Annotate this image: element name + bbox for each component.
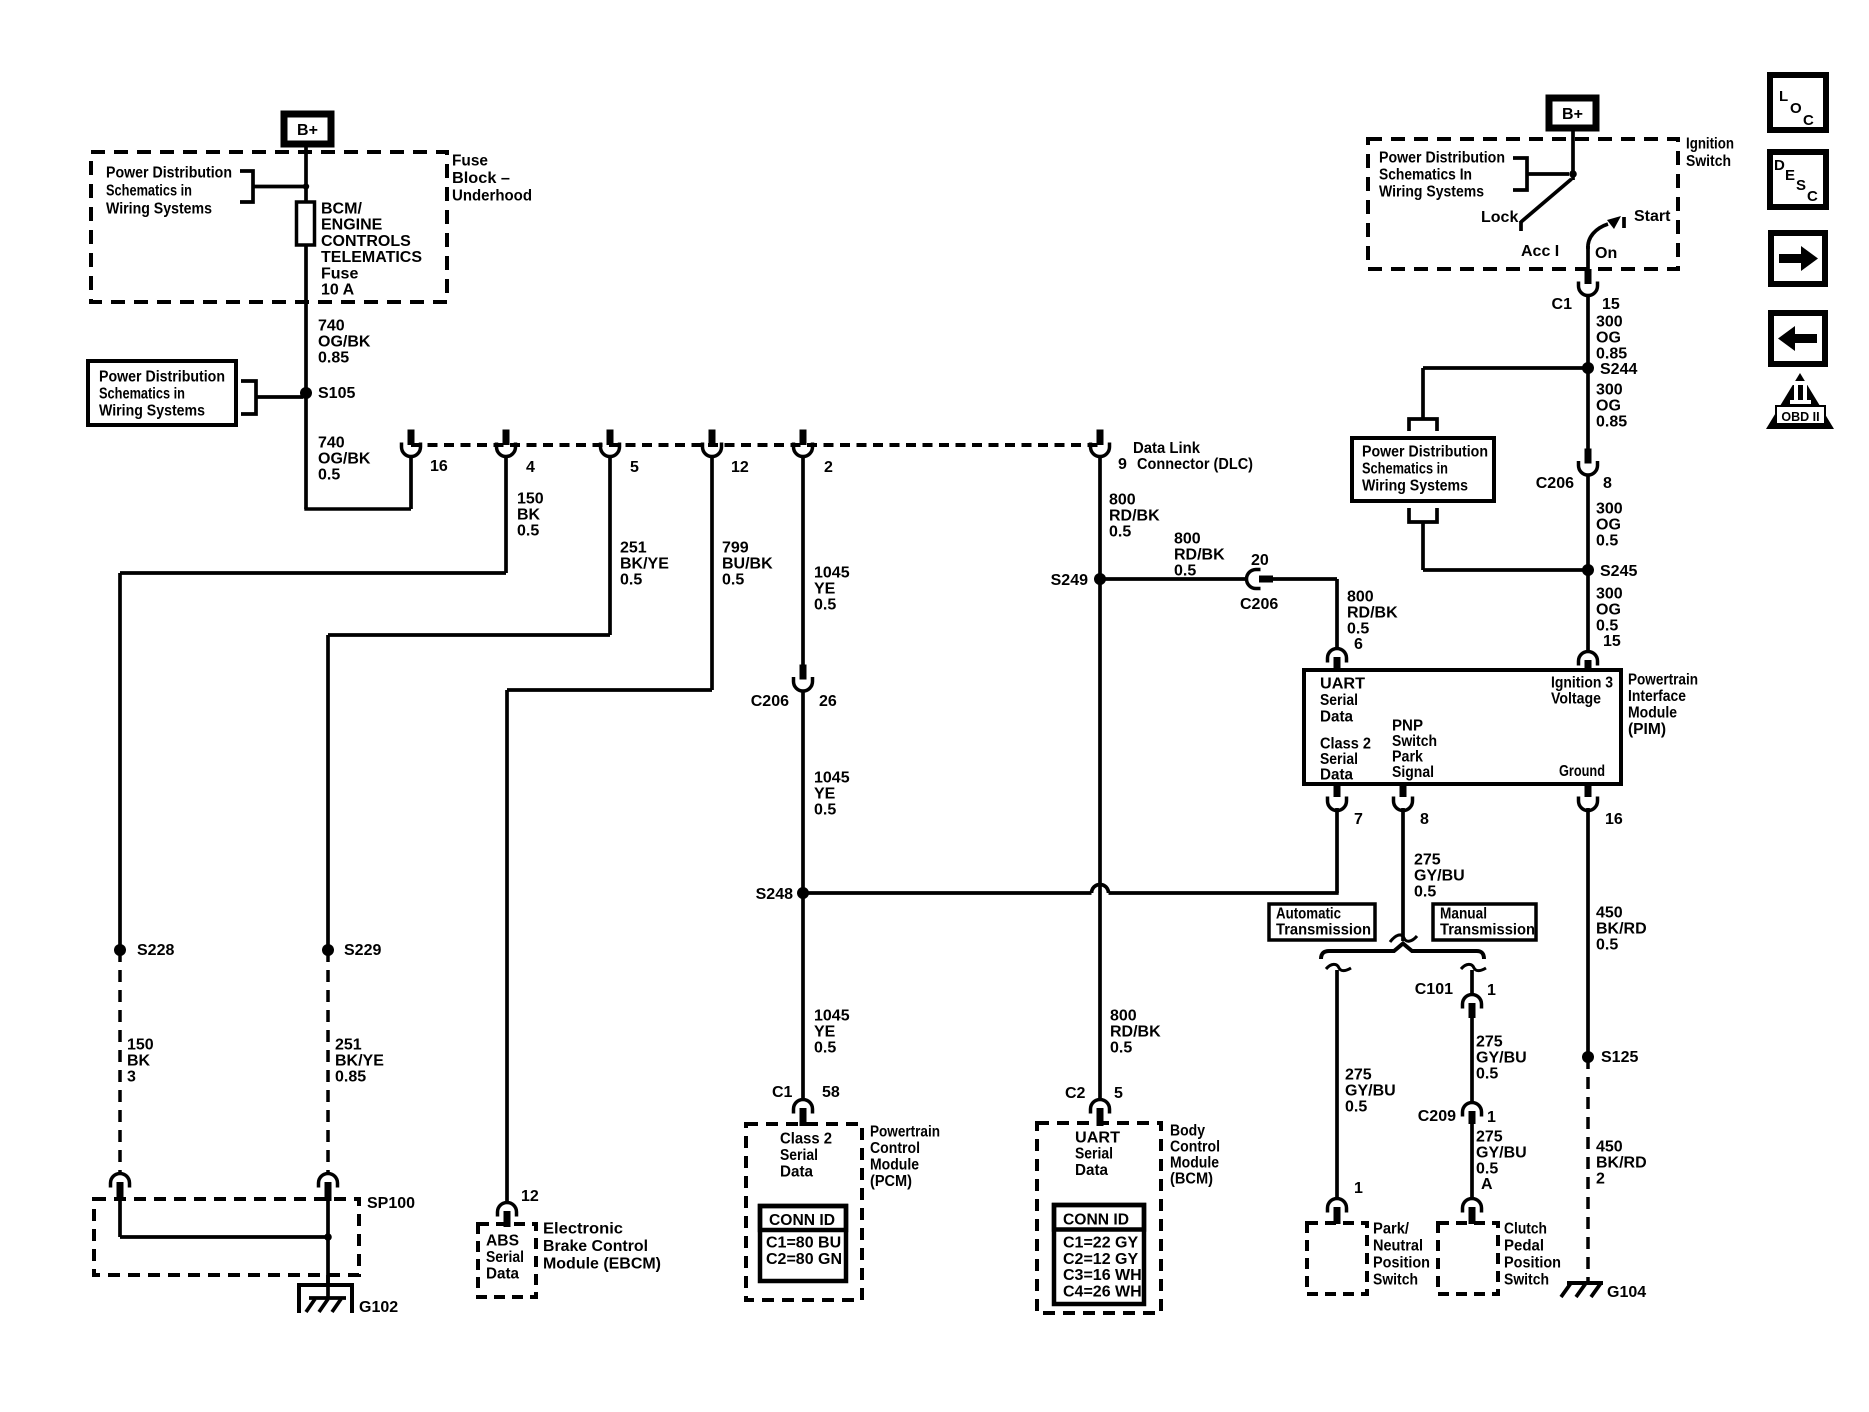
icon OBD II triangle <box>1766 373 1834 429</box>
svg-text:C206: C206 <box>1536 475 1574 492</box>
svg-text:275: 275 <box>1345 1067 1372 1084</box>
splice S248 <box>797 887 809 899</box>
svg-text:0.5: 0.5 <box>1110 1040 1132 1057</box>
dashed wire S229 to SP100, 251 BK/YE 0.85 <box>326 950 330 1172</box>
svg-text:S228: S228 <box>137 942 174 959</box>
box Manual Transmission <box>1433 904 1536 940</box>
DLC pin 12 <box>709 430 716 446</box>
connector into park/neutral switch pin 1 <box>1328 1199 1347 1213</box>
svg-text:0.5: 0.5 <box>620 572 642 589</box>
svg-text:C: C <box>1803 112 1814 129</box>
svg-text:Class 2: Class 2 <box>780 1131 832 1148</box>
wire to park/neutral switch, 275 GY/BU 0.5 <box>1335 970 1339 1199</box>
wire C206-8 to S245, 300 OG 0.5 <box>1586 475 1590 570</box>
svg-text:Module (EBCM): Module (EBCM) <box>543 1256 661 1273</box>
svg-text:G104: G104 <box>1607 1284 1646 1301</box>
PIM connector pin 6 <box>1328 649 1347 663</box>
svg-text:S229: S229 <box>344 942 381 959</box>
fuse F: BCM/ENGINE CONTROLS TELEMATICS Fuse 10 A <box>297 202 315 245</box>
svg-text:Serial: Serial <box>780 1147 818 1164</box>
svg-text:800: 800 <box>1174 531 1201 548</box>
svg-text:Switch: Switch <box>1373 1272 1418 1289</box>
icon arrow left <box>1771 313 1825 364</box>
wire S244 to C206 pin 8, 300 OG 0.85 <box>1586 368 1590 449</box>
wire S249 to BCM C2 pin 5, 800 RD/BK 0.5 <box>1098 579 1102 1099</box>
svg-text:C2=12 GY: C2=12 GY <box>1063 1251 1138 1268</box>
wire DLC pin 4 to S228 <box>504 456 508 573</box>
svg-text:CONN ID: CONN ID <box>769 1212 835 1229</box>
svg-text:12: 12 <box>521 1188 539 1205</box>
wire S105 down and over to DLC pin 16 <box>304 393 308 509</box>
svg-text:CONTROLS: CONTROLS <box>321 233 411 250</box>
svg-text:740: 740 <box>318 435 345 452</box>
DLC pin 16 <box>408 430 415 446</box>
svg-text:10 A: 10 A <box>321 282 355 299</box>
svg-text:CONN ID: CONN ID <box>1063 1212 1129 1229</box>
splice S228 <box>114 944 126 956</box>
svg-text:GY/BU: GY/BU <box>1476 1145 1527 1162</box>
svg-text:BCM/: BCM/ <box>321 201 362 218</box>
switch contact Start <box>1622 217 1626 228</box>
splice pack SP100 dashed outline <box>94 1199 359 1275</box>
PCM dashed box Class 2 Serial Data <box>746 1124 862 1300</box>
svg-text:Position: Position <box>1504 1255 1561 1272</box>
switch curve On to Start with arrow <box>1588 224 1608 249</box>
svg-text:15: 15 <box>1603 633 1621 650</box>
svg-text:Connector (DLC): Connector (DLC) <box>1137 456 1253 473</box>
svg-text:C206: C206 <box>1240 596 1278 613</box>
dashed wire S228 to SP100, 150 BK 3 <box>118 950 122 1172</box>
svg-text:0.85: 0.85 <box>335 1069 366 1086</box>
option brace <box>1321 944 1484 960</box>
svg-text:L: L <box>1779 88 1788 105</box>
svg-text:Serial: Serial <box>1075 1146 1113 1163</box>
svg-text:A: A <box>1481 1176 1493 1193</box>
wire fuse to S105 <box>304 245 308 393</box>
svg-text:0.85: 0.85 <box>1596 346 1627 363</box>
svg-text:C4=26 WH: C4=26 WH <box>1063 1283 1142 1300</box>
svg-text:BK/YE: BK/YE <box>335 1053 384 1070</box>
svg-text:Powertrain: Powertrain <box>870 1124 940 1141</box>
svg-text:Module: Module <box>1170 1155 1219 1172</box>
svg-text:Data Link: Data Link <box>1133 440 1200 457</box>
reference box Power Distribution Schematics in Wiring Systems (ignition feed) <box>1352 438 1494 501</box>
svg-text:C206: C206 <box>751 693 789 710</box>
svg-text:300: 300 <box>1596 586 1623 603</box>
connector into clutch switch pin A <box>1463 1199 1482 1213</box>
ignition connector C1 pin 15 <box>1585 269 1592 284</box>
svg-text:Park/: Park/ <box>1373 1221 1410 1238</box>
svg-text:800: 800 <box>1347 589 1374 606</box>
svg-text:300: 300 <box>1596 314 1623 331</box>
DLC pin 4 <box>503 430 510 446</box>
EBCM dashed box ABS Serial Data <box>478 1224 536 1297</box>
svg-text:0.5: 0.5 <box>517 523 539 540</box>
svg-text:450: 450 <box>1596 905 1623 922</box>
wire S248 to PCM C1 pin 58, 1045 YE 0.5 <box>801 893 805 1099</box>
svg-text:9: 9 <box>1118 456 1127 473</box>
svg-text:Control: Control <box>1170 1139 1220 1156</box>
svg-text:Power Distribution: Power Distribution <box>1379 150 1505 167</box>
svg-text:275: 275 <box>1476 1129 1503 1146</box>
svg-text:Schematics In: Schematics In <box>1379 167 1472 184</box>
svg-text:Ignition 3: Ignition 3 <box>1551 675 1613 692</box>
splice S245 <box>1582 564 1594 576</box>
svg-text:C1=22 GY: C1=22 GY <box>1063 1235 1138 1252</box>
wire B+ to fuse <box>304 147 308 202</box>
wire C206-26 to S248, 1045 YE 0.5 <box>801 691 805 893</box>
svg-text:Power Distribution: Power Distribution <box>106 165 232 182</box>
svg-text:20: 20 <box>1251 552 1269 569</box>
svg-text:Data: Data <box>1320 767 1353 784</box>
svg-text:S: S <box>1796 177 1806 194</box>
svg-text:1: 1 <box>1354 1180 1363 1197</box>
svg-text:ABS: ABS <box>486 1233 519 1250</box>
svg-text:Fuse: Fuse <box>452 153 488 170</box>
DLC pin 2 <box>800 430 807 446</box>
svg-text:0.5: 0.5 <box>1596 937 1618 954</box>
BCM dashed box UART Serial Data <box>1037 1123 1161 1313</box>
svg-text:S248: S248 <box>756 886 793 903</box>
svg-text:Electronic: Electronic <box>543 1221 623 1238</box>
svg-text:(BCM): (BCM) <box>1170 1171 1213 1188</box>
svg-text:Clutch: Clutch <box>1504 1221 1547 1238</box>
svg-text:0.5: 0.5 <box>722 572 744 589</box>
svg-text:Data: Data <box>486 1266 519 1283</box>
svg-text:Data: Data <box>1320 709 1353 726</box>
wire to S244, 300 OG 0.85 <box>1586 295 1590 368</box>
svg-text:TELEMATICS: TELEMATICS <box>321 249 422 266</box>
fuse block dashed outline Fuse Block - Underhood <box>91 152 447 302</box>
svg-text:Position: Position <box>1373 1255 1430 1272</box>
reference box Power Distribution Schematics in Wiring Systems (S105) <box>88 361 236 425</box>
svg-text:GY/BU: GY/BU <box>1476 1050 1527 1067</box>
svg-text:Serial: Serial <box>1320 751 1358 768</box>
svg-text:800: 800 <box>1110 1008 1137 1025</box>
dashed wire S125 to G104, 450 BK/RD 2 <box>1586 1057 1590 1283</box>
svg-text:0.85: 0.85 <box>1596 414 1627 431</box>
svg-text:Schematics in: Schematics in <box>99 386 185 403</box>
wire DLC pin 2 to C206 pin 26, 1045 YE 0.5 <box>801 456 805 665</box>
svg-text:5: 5 <box>1114 1085 1123 1102</box>
splice S229 <box>322 944 334 956</box>
svg-text:7: 7 <box>1354 811 1363 828</box>
box Automatic Transmission <box>1269 904 1375 940</box>
svg-text:58: 58 <box>822 1084 840 1101</box>
switch wiper to Lock position <box>1521 179 1572 222</box>
svg-text:6: 6 <box>1354 636 1363 653</box>
svg-text:2: 2 <box>824 459 833 476</box>
svg-text:16: 16 <box>430 458 448 475</box>
svg-text:G102: G102 <box>359 1299 398 1316</box>
svg-text:C101: C101 <box>1415 981 1453 998</box>
svg-text:S125: S125 <box>1601 1049 1638 1066</box>
svg-text:UART: UART <box>1075 1130 1120 1147</box>
svg-text:0.5: 0.5 <box>1109 524 1131 541</box>
svg-text:0.5: 0.5 <box>1345 1099 1367 1116</box>
BCM CONN ID table <box>1054 1205 1144 1304</box>
svg-text:Block –: Block – <box>452 170 510 187</box>
svg-text:15: 15 <box>1602 296 1620 313</box>
svg-text:0.5: 0.5 <box>1596 533 1618 550</box>
svg-text:0.5: 0.5 <box>1596 618 1618 635</box>
svg-text:Transmission: Transmission <box>1276 922 1371 939</box>
option break squiggle <box>1390 935 1417 942</box>
svg-text:Module: Module <box>1628 705 1677 722</box>
PIM pin 8 <box>1400 784 1407 797</box>
svg-text:(PIM): (PIM) <box>1628 721 1666 738</box>
svg-text:1: 1 <box>1487 982 1496 999</box>
wire to C101 <box>1470 970 1474 995</box>
svg-text:RD/BK: RD/BK <box>1347 605 1398 622</box>
wire DLC pin 5 to S229 <box>608 456 612 635</box>
svg-text:BK/RD: BK/RD <box>1596 921 1647 938</box>
svg-text:300: 300 <box>1596 382 1623 399</box>
svg-text:SP100: SP100 <box>367 1195 415 1212</box>
svg-text:OG/BK: OG/BK <box>318 334 371 351</box>
svg-text:Power Distribution: Power Distribution <box>99 369 225 386</box>
ignition switch dashed outline <box>1368 139 1678 269</box>
svg-text:Serial: Serial <box>486 1249 524 1266</box>
wire C101 to C209, 275 GY/BU 0.5 <box>1470 1018 1474 1103</box>
DLC pin 5 <box>607 430 614 446</box>
svg-text:D: D <box>1774 157 1785 174</box>
svg-text:C3=16 WH: C3=16 WH <box>1063 1267 1142 1284</box>
svg-text:Wiring Systems: Wiring Systems <box>106 201 212 218</box>
svg-text:Transmission: Transmission <box>1440 922 1535 939</box>
svg-text:12: 12 <box>731 459 749 476</box>
svg-text:2: 2 <box>1596 1171 1605 1188</box>
svg-text:Ignition: Ignition <box>1686 136 1734 153</box>
wire S249 to C206 pin 20, 800 RD/BK 0.5 <box>1100 577 1246 581</box>
svg-text:Switch: Switch <box>1392 733 1437 750</box>
splice S244 <box>1582 362 1594 374</box>
svg-text:8: 8 <box>1603 475 1612 492</box>
svg-text:150: 150 <box>127 1037 154 1054</box>
svg-text:(PCM): (PCM) <box>870 1173 912 1190</box>
branch S244 to power distribution reference <box>1423 366 1588 370</box>
svg-text:Brake Control: Brake Control <box>543 1238 648 1255</box>
svg-text:Class 2: Class 2 <box>1320 736 1371 753</box>
ground G102 <box>299 1285 352 1313</box>
ground G104 <box>1567 1281 1603 1285</box>
svg-text:BK: BK <box>127 1053 151 1070</box>
svg-text:O: O <box>1790 100 1802 117</box>
svg-text:YE: YE <box>814 1024 836 1041</box>
connector C209 pin 1 <box>1463 1103 1482 1117</box>
splice S105 <box>300 387 312 399</box>
svg-text:Acc I: Acc I <box>1521 243 1559 260</box>
svg-text:5: 5 <box>630 459 639 476</box>
svg-text:0.85: 0.85 <box>318 350 349 367</box>
battery feed B+ symbol (left) <box>284 114 331 144</box>
svg-text:300: 300 <box>1596 501 1623 518</box>
svg-text:Wiring Systems: Wiring Systems <box>1379 184 1484 201</box>
svg-text:Manual: Manual <box>1440 906 1487 923</box>
svg-text:450: 450 <box>1596 1139 1623 1156</box>
svg-text:RD/BK: RD/BK <box>1110 1024 1161 1041</box>
splice S249 <box>1094 573 1106 585</box>
bracket from note to feed wire <box>240 171 253 202</box>
wire C206-20 to PIM pin 6, 800 RD/BK 0.5 <box>1271 577 1337 581</box>
svg-text:0.5: 0.5 <box>814 1040 836 1057</box>
svg-text:Serial: Serial <box>1320 692 1358 709</box>
svg-text:Start: Start <box>1634 208 1671 225</box>
svg-text:GY/BU: GY/BU <box>1414 868 1465 885</box>
svg-text:C1: C1 <box>772 1084 793 1101</box>
connector C206 pin 8 <box>1585 449 1592 464</box>
svg-text:C: C <box>1807 188 1818 205</box>
manual transmission branch start <box>1461 964 1486 970</box>
bracket from note to feed <box>1513 158 1527 190</box>
Data Link Connector internal bus (dashed) <box>411 443 1100 447</box>
connector C206 pin 26 <box>800 665 807 680</box>
svg-text:Park: Park <box>1392 749 1423 766</box>
svg-text:YE: YE <box>814 581 836 598</box>
PIM pin 16 <box>1585 784 1592 797</box>
svg-text:OG: OG <box>1596 517 1621 534</box>
svg-text:0.5: 0.5 <box>1476 1161 1498 1178</box>
svg-text:275: 275 <box>1414 852 1441 869</box>
svg-text:Data: Data <box>780 1164 813 1181</box>
wire PIM pin 16 ground, 450 BK/RD 0.5 <box>1586 808 1590 1057</box>
splice S125 <box>1582 1051 1594 1063</box>
svg-text:C2: C2 <box>1065 1085 1086 1102</box>
DLC pin 9 <box>1097 430 1104 446</box>
wire switch On down to C1 <box>1586 246 1590 270</box>
svg-text:800: 800 <box>1109 492 1136 509</box>
svg-text:150: 150 <box>517 491 544 508</box>
svg-text:BK/RD: BK/RD <box>1596 1155 1647 1172</box>
svg-text:ENGINE: ENGINE <box>321 217 383 234</box>
svg-text:Schematics in: Schematics in <box>1362 461 1448 478</box>
wire DLC pin 12 to EBCM, 799 BU/BK 0.5 <box>710 456 714 690</box>
svg-text:C1: C1 <box>1552 296 1573 313</box>
svg-text:0.5: 0.5 <box>1174 563 1196 580</box>
svg-text:4: 4 <box>526 459 535 476</box>
svg-text:0.5: 0.5 <box>318 467 340 484</box>
switch dashed box Clutch Pedal Position Switch <box>1438 1223 1498 1294</box>
svg-text:B+: B+ <box>297 122 318 139</box>
svg-text:Ground: Ground <box>1559 763 1605 780</box>
icon arrow right <box>1771 233 1825 284</box>
svg-text:0.5: 0.5 <box>814 597 836 614</box>
svg-text:Data: Data <box>1075 1162 1108 1179</box>
svg-text:Power Distribution: Power Distribution <box>1362 444 1488 461</box>
PIM pin 7 <box>1334 784 1341 797</box>
icon LOC <box>1770 75 1826 130</box>
svg-text:C209: C209 <box>1418 1108 1456 1125</box>
svg-text:Automatic: Automatic <box>1276 906 1341 923</box>
svg-text:3: 3 <box>127 1069 136 1086</box>
automatic transmission branch start <box>1326 964 1351 970</box>
svg-text:1045: 1045 <box>814 565 850 582</box>
svg-text:Wiring Systems: Wiring Systems <box>1362 478 1468 495</box>
svg-text:Signal: Signal <box>1392 764 1434 781</box>
SP100 internal bus <box>118 1199 122 1237</box>
svg-text:251: 251 <box>620 540 647 557</box>
wire S245 to PIM pin 15, 300 OG 0.5 <box>1586 570 1590 652</box>
battery feed B+ symbol (ignition) <box>1549 98 1596 128</box>
svg-text:740: 740 <box>318 318 345 335</box>
svg-text:0.5: 0.5 <box>814 802 836 819</box>
svg-text:Module: Module <box>870 1157 919 1174</box>
svg-text:BU/BK: BU/BK <box>722 556 773 573</box>
svg-text:Pedal: Pedal <box>1504 1238 1544 1255</box>
svg-text:275: 275 <box>1476 1034 1503 1051</box>
svg-text:C2=80 GN: C2=80 GN <box>766 1251 842 1268</box>
svg-text:OG: OG <box>1596 330 1621 347</box>
svg-text:S249: S249 <box>1051 572 1088 589</box>
svg-text:BK: BK <box>517 507 541 524</box>
svg-text:Lock: Lock <box>1481 209 1518 226</box>
PCM CONN ID table <box>760 1206 846 1281</box>
svg-text:0.5: 0.5 <box>1476 1066 1498 1083</box>
svg-text:BK/YE: BK/YE <box>620 556 669 573</box>
svg-text:S244: S244 <box>1600 361 1637 378</box>
svg-text:Body: Body <box>1170 1123 1205 1140</box>
wire S248 to PIM pin 7 (hops over BCM wire) <box>803 891 1092 895</box>
icon DESC <box>1770 152 1826 207</box>
connector into SP100 (left) <box>111 1174 130 1188</box>
svg-text:OBD II: OBD II <box>1781 410 1819 424</box>
svg-text:UART: UART <box>1320 676 1365 693</box>
wire DLC pin 9 to S249, 800 RD/BK 0.5 <box>1098 456 1102 579</box>
connector into SP100 (right) <box>319 1174 338 1188</box>
svg-text:1045: 1045 <box>814 770 850 787</box>
svg-text:Fuse: Fuse <box>321 265 358 282</box>
svg-text:RD/BK: RD/BK <box>1174 547 1225 564</box>
svg-text:YE: YE <box>814 786 836 803</box>
svg-text:16: 16 <box>1605 811 1623 828</box>
svg-text:Control: Control <box>870 1140 920 1157</box>
bracket from reference box to S105 <box>241 381 256 414</box>
svg-text:1: 1 <box>1487 1109 1496 1126</box>
switch dashed box Park/Neutral Position Switch <box>1307 1223 1367 1294</box>
svg-text:Switch: Switch <box>1504 1272 1549 1289</box>
svg-text:OG: OG <box>1596 602 1621 619</box>
svg-text:OG: OG <box>1596 398 1621 415</box>
svg-text:Voltage: Voltage <box>1551 691 1601 708</box>
svg-text:PNP: PNP <box>1392 718 1423 735</box>
svg-text:26: 26 <box>819 693 837 710</box>
svg-text:0.5: 0.5 <box>1414 884 1436 901</box>
svg-text:On: On <box>1595 245 1617 262</box>
svg-text:799: 799 <box>722 540 749 557</box>
svg-text:GY/BU: GY/BU <box>1345 1083 1396 1100</box>
svg-text:RD/BK: RD/BK <box>1109 508 1160 525</box>
svg-text:Underhood: Underhood <box>452 188 532 205</box>
svg-text:S245: S245 <box>1600 563 1637 580</box>
svg-text:Wiring Systems: Wiring Systems <box>99 403 205 420</box>
PIM connector pin 15 <box>1579 652 1598 666</box>
svg-text:OG/BK: OG/BK <box>318 451 371 468</box>
wire PIM pin 8 PNP park signal, 275 GY/BU 0.5 <box>1401 808 1405 941</box>
wire B+ into switch <box>1571 128 1575 180</box>
svg-text:251: 251 <box>335 1037 362 1054</box>
svg-text:8: 8 <box>1420 811 1429 828</box>
svg-text:Schematics in: Schematics in <box>106 183 192 200</box>
connector C101 pin 1 <box>1463 995 1482 1009</box>
svg-text:1045: 1045 <box>814 1008 850 1025</box>
svg-text:Switch: Switch <box>1686 153 1731 170</box>
svg-text:E: E <box>1785 167 1795 184</box>
wire C209 to clutch switch, 275 GY/BU 0.5 pin A <box>1470 1124 1474 1199</box>
svg-text:B+: B+ <box>1562 106 1583 123</box>
svg-text:S105: S105 <box>318 385 355 402</box>
svg-text:0.5: 0.5 <box>1347 621 1369 638</box>
svg-text:Interface: Interface <box>1628 688 1686 705</box>
